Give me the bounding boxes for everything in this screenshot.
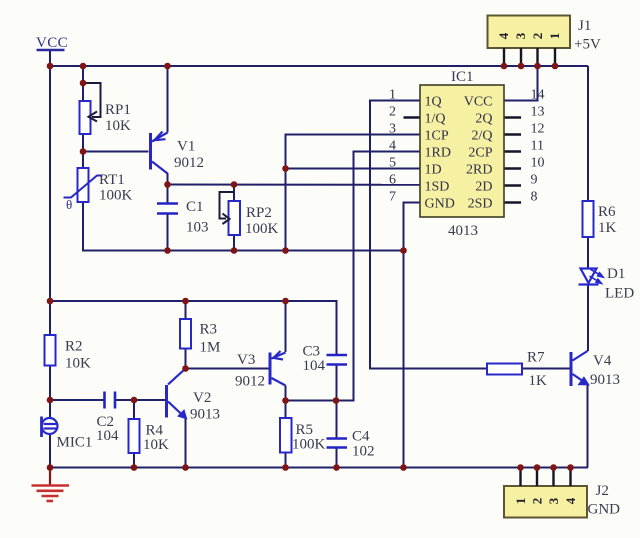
wire C1 top lead: [167, 185, 169, 204]
transistor V4 base bar: [570, 352, 573, 386]
wire C2 right lead to V2 base: [116, 399, 166, 401]
wire mid rail VCC branch: [50, 301, 337, 354]
svg-text:3: 3: [546, 497, 561, 504]
wire RP1 wiper loop: [83, 83, 101, 117]
ground symbol: [32, 468, 70, 502]
svg-text:1Q: 1Q: [425, 95, 442, 110]
wire R3 top lead: [185, 301, 187, 319]
node RP2 top: [231, 181, 238, 188]
wire R6 to LED: [587, 237, 589, 268]
svg-text:J2: J2: [596, 483, 609, 499]
svg-text:1: 1: [513, 498, 528, 505]
wire V1 emitter from top rail: [167, 66, 169, 133]
wire RP2 bottom lead: [233, 235, 235, 251]
node MIC1 ground: [47, 464, 54, 471]
svg-text:V4: V4: [593, 353, 612, 369]
node pin7 ground rail crossing: [400, 247, 407, 254]
svg-text:8: 8: [531, 190, 538, 205]
svg-text:R2: R2: [65, 339, 83, 355]
wire V3 collector node: [285, 386, 287, 401]
resistor RP1 (potentiometer body): [80, 101, 91, 134]
node mid rail left: [47, 298, 54, 305]
transistor V2 base bar: [165, 385, 168, 418]
arrow RP2 wiper: [223, 214, 230, 225]
node V3 collector R5: [282, 397, 289, 404]
node RP1 branch: [80, 63, 87, 70]
wire V4 emitter to bottom rail: [587, 383, 589, 468]
svg-text:104: 104: [303, 358, 326, 374]
svg-text:4: 4: [563, 497, 578, 504]
svg-text:R3: R3: [200, 322, 218, 338]
node J2 pin2: [534, 464, 541, 471]
capacitor C3 plates: [327, 355, 348, 365]
svg-text:θ: θ: [66, 197, 72, 212]
wire top VCC rail: [50, 65, 588, 67]
svg-text:LED: LED: [605, 286, 634, 302]
svg-text:4: 4: [389, 139, 396, 154]
node J2 pin1: [517, 464, 524, 471]
svg-text:10K: 10K: [65, 356, 91, 372]
svg-text:1SD: 1SD: [425, 180, 450, 195]
svg-text:1RD: 1RD: [425, 146, 451, 161]
svg-text:2SD: 2SD: [468, 197, 493, 212]
wire bottom ground rail: [50, 467, 588, 469]
transistor V1 base bar: [149, 133, 152, 170]
wire top rail corner to R6: [587, 66, 589, 201]
svg-text:V2: V2: [193, 390, 211, 406]
svg-text:104: 104: [96, 428, 119, 444]
node J2 pin3: [550, 464, 557, 471]
wire IC pin2 stub: [404, 116, 421, 118]
svg-text:RT1: RT1: [99, 172, 125, 188]
wire J2 pin3 stub: [552, 468, 554, 487]
arrow D1 emission 1: [591, 269, 604, 277]
svg-text:2Q: 2Q: [475, 112, 492, 127]
transistor V3 collector diagonal: [272, 378, 286, 386]
node R3 bottom V2 collector: [182, 365, 189, 372]
wire V3 emitter to mid rail: [285, 301, 287, 352]
transistor V3 emitter diagonal with arrow: [272, 351, 286, 360]
wire R2 bottom to C2 node: [49, 366, 51, 401]
svg-text:103: 103: [186, 220, 209, 236]
capacitor C1 plates: [157, 204, 178, 214]
thermistor RT1 diagonal: [64, 176, 103, 198]
wire IC pin3 vertical to ground rail: [286, 135, 421, 251]
wire V3 collector to C3 C4 node: [286, 400, 354, 402]
svg-text:102: 102: [352, 444, 375, 460]
wire IC pin12 stub: [504, 133, 521, 135]
svg-text:GND: GND: [425, 197, 455, 212]
svg-text:1D: 1D: [425, 163, 442, 178]
node V2 emitter ground: [182, 464, 189, 471]
resistor R4 body: [129, 419, 140, 453]
svg-text:1/Q: 1/Q: [425, 112, 446, 127]
wire IC pin1 to R7 net: [370, 101, 487, 369]
wire IC pin8 stub: [504, 201, 521, 203]
transistor V1 collector diagonal: [152, 162, 168, 174]
svg-text:4013: 4013: [448, 223, 478, 239]
svg-text:13: 13: [531, 105, 545, 120]
wire J2 pin1 stub: [519, 468, 521, 487]
svg-text:IC1: IC1: [451, 69, 474, 85]
svg-text:GND: GND: [588, 502, 621, 518]
svg-text:V3: V3: [237, 352, 255, 368]
svg-text:9013: 9013: [590, 372, 620, 388]
power symbol VCC: [37, 49, 65, 52]
diode D1 LED: [579, 269, 599, 285]
svg-text:RP2: RP2: [246, 205, 272, 221]
svg-text:100K: 100K: [292, 437, 326, 453]
svg-text:10K: 10K: [105, 118, 131, 134]
node J1 pin3: [518, 63, 525, 70]
capacitor C4 plates: [327, 439, 348, 448]
wire R3 node to V3 base: [186, 368, 270, 370]
svg-text:14: 14: [531, 88, 545, 103]
wire R4 bottom lead: [133, 453, 135, 468]
transistor V3 base bar: [269, 353, 272, 385]
svg-text:R6: R6: [598, 204, 616, 220]
transistor V4 emitter diagonal with arrow: [573, 374, 588, 384]
wire C1 bottom lead: [167, 214, 169, 251]
svg-text:1CP: 1CP: [425, 129, 449, 144]
svg-text:VCC: VCC: [36, 35, 68, 51]
wire IC pin7 GND to bottom rail: [404, 203, 421, 468]
node VCC rail left: [47, 63, 54, 70]
connector J1 body: [488, 16, 571, 49]
svg-text:2D: 2D: [475, 180, 492, 195]
svg-text:100K: 100K: [99, 188, 133, 204]
wire IC pin13 stub: [504, 116, 521, 118]
wire RP1 branch from top rail: [82, 66, 84, 101]
IC1 body: [420, 85, 504, 217]
node J1 pin2 IC VCC: [534, 63, 541, 70]
wire R7 to V4 base: [522, 368, 570, 370]
node C1 bottom ground: [164, 247, 171, 254]
node V3 emitter top: [282, 298, 289, 305]
node R5 ground: [282, 464, 289, 471]
svg-text:3: 3: [513, 32, 528, 39]
svg-text:1: 1: [547, 33, 562, 40]
connector J2 body: [504, 486, 587, 518]
wire IC pin4 to C3 C4 node: [336, 152, 420, 401]
wire IC pin11 stub: [504, 150, 521, 152]
svg-text:100K: 100K: [245, 221, 279, 237]
svg-text:C4: C4: [352, 429, 370, 445]
wire RT1 bottom to ground rail: [83, 202, 404, 251]
wire C4 top lead: [336, 401, 338, 439]
node R4 ground: [131, 464, 138, 471]
node J2 pin4: [567, 464, 574, 471]
microphone MIC1: [42, 417, 58, 438]
arrow D1 emission 2: [590, 276, 602, 283]
wire J1 pin4 stub: [503, 48, 505, 66]
wire C4 bottom lead: [336, 448, 338, 468]
wire C3 top lead: [336, 354, 338, 356]
node V1 base RT1: [80, 148, 87, 155]
node J1 pin1: [552, 63, 559, 70]
svg-text:4: 4: [496, 32, 511, 39]
svg-text:10: 10: [531, 156, 545, 171]
svg-text:5: 5: [389, 156, 396, 171]
wire R4 top lead: [133, 400, 135, 419]
svg-text:11: 11: [531, 139, 544, 154]
svg-text:MIC1: MIC1: [57, 435, 93, 451]
wire MIC1 top lead: [49, 400, 51, 418]
wire IC pin10 stub: [504, 167, 521, 169]
wire RP2 top lead: [233, 185, 235, 202]
svg-text:3: 3: [389, 122, 396, 137]
node pin3 vertical ground: [282, 247, 289, 254]
resistor RP2 (potentiometer body): [229, 201, 241, 235]
svg-text:6: 6: [389, 173, 396, 188]
node C2 R4 V2 base: [131, 397, 138, 404]
transistor V2 emitter diagonal with arrow: [168, 402, 186, 419]
capacitor C2 plates: [105, 392, 116, 409]
svg-text:R7: R7: [527, 350, 545, 366]
svg-text:2CP: 2CP: [468, 146, 492, 161]
svg-text:9013: 9013: [190, 407, 220, 423]
wire C2 left lead: [50, 399, 104, 401]
wire J2 pin4 stub: [569, 468, 571, 487]
node J1 pin4: [501, 63, 508, 70]
wire R5 bottom lead: [285, 453, 287, 468]
resistor R7 body: [487, 364, 522, 375]
node R3 top: [182, 298, 189, 305]
node pin7 bottom rail: [400, 464, 407, 471]
wire J1 pin1 stub: [554, 48, 556, 66]
svg-text:12: 12: [531, 122, 545, 137]
wire V2 emitter to bottom rail: [185, 418, 187, 468]
resistor R2 body: [45, 335, 56, 366]
wire VCC stem: [49, 50, 51, 66]
svg-text:VCC: VCC: [464, 95, 493, 110]
node RP1 wiper tap: [80, 80, 87, 87]
svg-text:1M: 1M: [200, 340, 221, 356]
transistor V4 collector diagonal: [573, 351, 588, 361]
wire RP2 wiper loop: [220, 192, 235, 219]
svg-text:1: 1: [389, 88, 396, 103]
wire left vertical VCC to bottom rail: [49, 50, 51, 335]
svg-text:2: 2: [530, 498, 545, 505]
transistor V2 collector diagonal: [168, 369, 186, 385]
wire RP1 to RT1 with base tap: [82, 134, 84, 168]
node R2 bottom C2: [47, 397, 54, 404]
resistor R6 body: [583, 201, 594, 237]
wire IC pin9 stub: [504, 184, 521, 186]
wire J1 pin3 stub: [520, 48, 522, 66]
transistor V1 emitter diagonal with arrow: [152, 132, 168, 142]
svg-text:10K: 10K: [143, 437, 169, 453]
node RP2 bottom ground: [231, 247, 238, 254]
wire R5 top lead: [285, 401, 287, 419]
arrow RP1 wiper: [89, 112, 98, 122]
wire LED to V4 collector: [587, 285, 589, 351]
wire R3 bottom lead: [185, 349, 187, 369]
wire IC pin14 to top rail: [504, 66, 538, 101]
node C3 C4 junction: [333, 397, 340, 404]
node V1 collector C1: [164, 181, 171, 188]
svg-text:2: 2: [530, 33, 545, 40]
svg-text:J1: J1: [578, 18, 591, 34]
svg-text:+5V: +5V: [574, 37, 601, 53]
svg-text:1K: 1K: [529, 373, 548, 389]
node V1 emitter branch: [164, 63, 171, 70]
node C4 ground: [333, 464, 340, 471]
wire C3 bottom lead: [336, 365, 338, 401]
svg-text:7: 7: [389, 190, 396, 205]
thermistor RT1 body: [78, 168, 89, 202]
svg-text:9: 9: [531, 173, 538, 188]
node IC pin5 junction: [282, 165, 289, 172]
svg-text:2: 2: [389, 105, 396, 120]
resistor R3 body: [180, 319, 191, 349]
svg-text:1K: 1K: [598, 220, 617, 236]
svg-text:C1: C1: [186, 199, 204, 215]
svg-text:2RD: 2RD: [466, 163, 492, 178]
svg-text:9012: 9012: [174, 155, 204, 171]
wire MIC1 bottom lead: [49, 434, 51, 468]
wire V1 collector down: [167, 173, 169, 185]
svg-text:2/Q: 2/Q: [472, 129, 493, 144]
wire J1 pin2 stub: [536, 48, 538, 66]
wire IC pin5 to pin3 vertical: [286, 168, 421, 170]
svg-text:V1: V1: [177, 139, 195, 155]
resistor R5 body: [280, 418, 292, 453]
wire V1 base: [83, 151, 149, 153]
wire J2 pin2 stub: [536, 468, 538, 487]
svg-text:9012: 9012: [235, 374, 265, 390]
wire C1 RP2 to IC pin6: [168, 184, 421, 186]
svg-text:D1: D1: [607, 266, 625, 282]
svg-text:RP1: RP1: [105, 102, 131, 118]
